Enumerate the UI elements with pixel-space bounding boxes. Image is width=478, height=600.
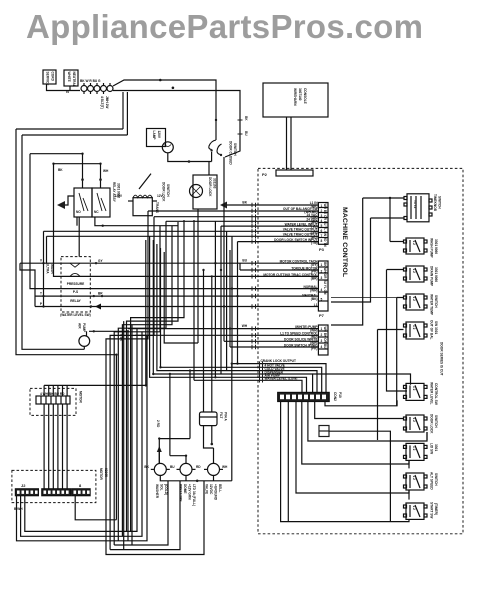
wire xyxy=(331,198,363,325)
wire rail3 xyxy=(30,154,61,289)
svg-text:DOOR SERIES IS CUT: DOOR SERIES IS CUT xyxy=(440,342,444,376)
wire xyxy=(126,92,128,135)
wire xyxy=(110,481,180,550)
svg-text:8: 8 xyxy=(79,483,82,488)
junction xyxy=(211,443,214,446)
wire xyxy=(62,404,64,489)
wire xyxy=(43,385,45,396)
junction xyxy=(189,369,191,371)
svg-text:8: 8 xyxy=(321,239,323,243)
relay K1 xyxy=(74,188,92,217)
junction xyxy=(93,330,95,332)
wire xyxy=(122,226,172,537)
svg-text:(PK): (PK) xyxy=(311,347,318,351)
wire xyxy=(397,297,404,299)
pin ticks group1 xyxy=(252,203,256,244)
svg-text:(PK): (PK) xyxy=(311,270,318,274)
svg-text:(GN): (GN) xyxy=(311,230,318,234)
junction xyxy=(99,178,102,181)
switch S9 xyxy=(404,473,428,490)
wire xyxy=(52,404,54,489)
wire xyxy=(213,475,215,480)
svg-text:BK: BK xyxy=(242,201,247,205)
motor terminal strip J2c xyxy=(72,489,90,496)
wire xyxy=(396,400,398,405)
valve solenoid V2 xyxy=(180,463,192,475)
wire xyxy=(16,128,123,130)
wire xyxy=(83,346,85,349)
pressure switch box xyxy=(61,257,90,312)
wire xyxy=(106,211,204,555)
svg-text:J2: J2 xyxy=(21,483,26,488)
wire xyxy=(61,275,318,277)
relay K2 xyxy=(92,188,110,217)
switch S6 xyxy=(404,383,428,400)
motor connector box xyxy=(30,388,76,415)
wire xyxy=(131,325,133,545)
svg-text:(OR): (OR) xyxy=(311,215,318,219)
wire xyxy=(189,371,191,439)
wire xyxy=(75,496,116,520)
svg-text:BK W R BU G: BK W R BU G xyxy=(80,79,101,83)
wire xyxy=(114,226,160,545)
wire xyxy=(325,400,397,405)
svg-text:5: 5 xyxy=(321,224,323,228)
wire xyxy=(69,86,71,91)
svg-text:1 2: 1 2 xyxy=(412,476,416,481)
wire xyxy=(214,221,216,377)
wire xyxy=(131,220,184,531)
svg-text:SOL: SOL xyxy=(160,484,164,491)
wire xyxy=(123,321,125,549)
svg-text:DOOR LOCK: DOOR LOCK xyxy=(162,182,166,202)
svg-text:WASH: WASH xyxy=(50,264,54,274)
svg-text:P10: P10 xyxy=(338,392,342,398)
svg-text:SWITCH: SWITCH xyxy=(434,473,438,486)
svg-text:NC: NC xyxy=(94,210,99,214)
svg-text:(COLD): (COLD) xyxy=(164,484,168,495)
svg-text:BK: BK xyxy=(144,465,149,469)
svg-text:4: 4 xyxy=(321,345,323,349)
svg-text:GY: GY xyxy=(98,259,103,263)
secondary label rows group1 xyxy=(304,204,317,350)
svg-text:PRESSURE: PRESSURE xyxy=(67,282,85,286)
svg-text:ULTRA: ULTRA xyxy=(46,263,50,274)
svg-text:4: 4 xyxy=(321,288,323,292)
wire relay2 bottom xyxy=(95,217,178,226)
switch S7 xyxy=(404,415,428,432)
svg-text:1 2: 1 2 xyxy=(412,446,416,451)
wire xyxy=(76,217,78,226)
wire xyxy=(378,329,404,331)
wire xyxy=(231,236,233,367)
svg-text:P2: P2 xyxy=(262,172,268,177)
svg-text:(GY): (GY) xyxy=(311,263,318,267)
svg-text:+GROUND: +GROUND xyxy=(214,484,218,501)
svg-text:(BK): (BK) xyxy=(311,204,318,208)
wire xyxy=(260,377,307,392)
svg-text:TRANS: TRANS xyxy=(155,202,159,213)
svg-text:1: 1 xyxy=(321,263,323,267)
wire xyxy=(43,231,45,306)
svg-text:BU: BU xyxy=(242,259,247,263)
transformer T1 xyxy=(128,195,157,216)
pin ticks group2 xyxy=(252,261,256,309)
wire xyxy=(231,364,233,481)
door lock box xyxy=(193,175,217,209)
svg-text:LTD 3A (FULL): LTD 3A (FULL) xyxy=(192,484,196,506)
svg-text:4 WH BK BU RD: 4 WH BK BU RD xyxy=(40,392,65,396)
arrow on L1 wire xyxy=(95,304,101,310)
svg-text:1 2: 1 2 xyxy=(412,241,416,246)
svg-text:DOOR LOCK: DOOR LOCK xyxy=(208,177,212,197)
svg-text:AIR: AIR xyxy=(78,323,82,329)
svg-text:(TIMER): (TIMER) xyxy=(434,503,438,515)
junction xyxy=(196,480,199,483)
wire xyxy=(296,402,409,494)
switch S5 xyxy=(404,322,428,339)
svg-text:12VDC: 12VDC xyxy=(209,484,213,495)
wire xyxy=(260,367,322,392)
svg-text:(WH): (WH) xyxy=(310,288,317,292)
svg-text:(BR): (BR) xyxy=(311,276,318,280)
wire xyxy=(169,448,171,456)
harness stem xyxy=(286,117,288,170)
svg-text:NO: NO xyxy=(76,210,81,214)
wire xyxy=(20,262,318,264)
svg-text:(YL): (YL) xyxy=(311,225,317,229)
tick marks wire B xyxy=(238,119,243,121)
switch S10 xyxy=(404,503,428,519)
svg-text:V: V xyxy=(40,259,43,263)
svg-text:(TN): (TN) xyxy=(311,241,317,245)
wire xyxy=(159,439,190,464)
pin ticks crank group xyxy=(260,361,263,382)
svg-text:T: T xyxy=(40,292,42,296)
wire xyxy=(240,269,318,271)
wire xyxy=(197,217,199,343)
svg-text:3: 3 xyxy=(321,276,323,280)
svg-text:3301 9066: 3301 9066 xyxy=(434,267,438,282)
svg-text:(BK): (BK) xyxy=(311,297,318,301)
svg-text:BU: BU xyxy=(244,131,248,136)
plug box L1 xyxy=(43,70,56,84)
wire xyxy=(25,328,137,531)
junction xyxy=(214,376,216,378)
wire xyxy=(47,235,319,237)
wire motor connector feed xyxy=(44,240,146,385)
svg-text:DOME: DOME xyxy=(183,484,187,494)
svg-text:CRANK LOCK OUTPUT: CRANK LOCK OUTPUT xyxy=(261,359,296,363)
wire xyxy=(20,263,35,306)
svg-text:1 2: 1 2 xyxy=(412,418,416,423)
wire xyxy=(35,306,318,308)
svg-text:3407140: 3407140 xyxy=(298,88,302,101)
wire xyxy=(153,240,260,374)
svg-text:DOOR LOCK: DOOR LOCK xyxy=(430,414,434,434)
contact xyxy=(70,273,80,276)
terminal block TB1 xyxy=(81,83,113,94)
wire xyxy=(193,220,195,380)
wire xyxy=(86,331,88,336)
svg-text:1: 1 xyxy=(321,204,323,208)
wire xyxy=(230,346,318,348)
wire xyxy=(387,270,408,392)
wire xyxy=(204,426,214,448)
svg-text:(WH): (WH) xyxy=(310,341,317,345)
svg-text:P04 A: P04 A xyxy=(224,412,228,421)
arrow to door lock xyxy=(220,202,227,209)
wire xyxy=(157,244,260,371)
junction xyxy=(211,275,213,277)
svg-text:P-S: P-S xyxy=(73,290,78,294)
wire S6 top feed xyxy=(313,374,411,385)
svg-text:CORD: CORD xyxy=(51,72,55,82)
wire xyxy=(82,154,84,188)
wire xyxy=(161,248,261,367)
svg-text:(RD): (RD) xyxy=(311,335,318,339)
wire xyxy=(54,164,62,277)
svg-text:(BU): (BU) xyxy=(311,220,318,224)
door closed switch S1 xyxy=(209,140,222,162)
wire xyxy=(194,380,302,392)
lamp DL1 xyxy=(162,142,173,153)
svg-text:SW 3301: SW 3301 xyxy=(434,321,438,334)
switch S2 xyxy=(404,238,428,254)
svg-text:5: 5 xyxy=(321,298,323,302)
wire rail1 xyxy=(16,129,116,520)
svg-text:LID SW: LID SW xyxy=(430,443,434,454)
svg-text:SWITCH: SWITCH xyxy=(233,143,237,156)
wire xyxy=(158,448,160,463)
svg-text:(WH): (WH) xyxy=(310,328,317,332)
wire xyxy=(224,340,318,342)
wire xyxy=(128,328,318,330)
wire xyxy=(238,241,319,243)
valve solenoid V1 xyxy=(154,463,166,475)
svg-text:3301 9066: 3301 9066 xyxy=(434,239,438,254)
svg-text:WATER TEMP: WATER TEMP xyxy=(430,294,434,316)
svg-text:WH BK OR BU YL GN RD TN: WH BK OR BU YL GN RD TN xyxy=(323,204,327,248)
svg-text:2: 2 xyxy=(321,270,323,274)
wire xyxy=(260,371,317,393)
svg-text:(RD): (RD) xyxy=(311,235,318,239)
lamp box xyxy=(147,129,166,147)
wire xyxy=(169,374,171,448)
wire xyxy=(89,331,128,541)
svg-text:CON2: CON2 xyxy=(333,392,337,401)
wire xyxy=(30,153,83,155)
switch S3 xyxy=(404,266,428,282)
wire xyxy=(118,221,166,541)
svg-text:WH BK OR BU: WH BK OR BU xyxy=(323,327,327,350)
wire B to door switch right xyxy=(113,91,240,158)
wire xyxy=(302,402,409,465)
wire xyxy=(232,364,326,393)
motor terminal strip J2a xyxy=(15,489,38,496)
wire xyxy=(203,270,205,412)
svg-text:331163: 331163 xyxy=(213,178,217,189)
svg-text:3301: 3301 xyxy=(434,444,438,451)
wire xyxy=(46,236,48,263)
door lock motor xyxy=(190,185,203,198)
filter capacitor C1 xyxy=(200,412,218,426)
svg-text:3: 3 xyxy=(321,214,323,218)
labels group3 xyxy=(280,325,318,347)
svg-text:PUMP: PUMP xyxy=(82,323,86,333)
wire xyxy=(237,242,239,364)
wire xyxy=(44,230,319,232)
wire xyxy=(226,231,228,370)
wire xyxy=(66,404,68,489)
motor enclosure xyxy=(12,470,96,502)
wire xyxy=(287,402,289,522)
wire xyxy=(47,84,81,91)
wire xyxy=(48,404,50,489)
svg-text:(WH-BK): (WH-BK) xyxy=(304,210,317,214)
svg-text:RELAY ASSY: RELAY ASSY xyxy=(112,182,116,203)
svg-text:L1: L1 xyxy=(314,303,318,307)
wire xyxy=(211,426,213,444)
valve solenoid V3 xyxy=(208,463,220,475)
wire xyxy=(168,153,212,162)
svg-text:6 BK: 6 BK xyxy=(119,334,123,342)
svg-text:2: 2 xyxy=(321,209,323,213)
svg-text:RELAY: RELAY xyxy=(70,299,81,303)
wire xyxy=(197,209,199,217)
timer U1 xyxy=(404,194,432,222)
switch internal marks xyxy=(412,200,417,510)
wire rail2 xyxy=(22,135,84,349)
junction dots xyxy=(52,79,238,457)
wire harness box xyxy=(263,83,328,117)
svg-text:START SW: START SW xyxy=(430,502,434,518)
svg-text:RD: RD xyxy=(196,465,201,469)
wire xyxy=(170,456,186,464)
junction xyxy=(188,160,191,163)
labels group2 xyxy=(263,260,318,307)
wire xyxy=(408,490,410,500)
wire xyxy=(114,481,168,545)
svg-text:12V: 12V xyxy=(157,194,164,198)
wire solenoid bottoms xyxy=(160,475,232,480)
svg-text:1: 1 xyxy=(321,327,323,331)
wire xyxy=(110,217,154,550)
connector P8 xyxy=(319,426,329,437)
svg-text:ALT SPEED: ALT SPEED xyxy=(430,472,434,490)
wire xyxy=(223,157,225,341)
svg-text:62305: 62305 xyxy=(104,468,108,477)
svg-text:1 2: 1 2 xyxy=(412,386,416,391)
pin ticks group3 xyxy=(252,326,256,349)
wire xyxy=(127,222,179,531)
svg-text:1 2: 1 2 xyxy=(412,297,416,302)
svg-text:3: 3 xyxy=(321,339,323,343)
machine control enclosure xyxy=(258,168,463,533)
junction xyxy=(202,269,204,271)
svg-text:2: 2 xyxy=(321,333,323,337)
svg-text:WATER LEVEL: WATER LEVEL xyxy=(430,382,434,404)
svg-text:WH: WH xyxy=(103,169,109,173)
wire xyxy=(213,448,215,463)
junction xyxy=(231,362,233,364)
junction xyxy=(389,197,391,199)
svg-text:WASHER: WASHER xyxy=(155,484,159,499)
wire xyxy=(377,330,379,441)
svg-text:PRESSURE: PRESSURE xyxy=(179,484,183,502)
svg-text:1 2: 1 2 xyxy=(412,269,416,274)
svg-text:WH: WH xyxy=(222,465,228,469)
svg-text:120V: 120V xyxy=(157,131,161,139)
svg-text:FILT: FILT xyxy=(219,412,223,419)
wire xyxy=(396,298,398,406)
wire xyxy=(331,218,371,302)
svg-text:120V: 120V xyxy=(115,194,123,198)
svg-text:P: P xyxy=(40,302,43,306)
wire xyxy=(185,475,187,480)
svg-text:DOOR CLOSED: DOOR CLOSED xyxy=(229,141,233,165)
wire xyxy=(139,174,151,189)
svg-text:SERVICE: SERVICE xyxy=(46,72,50,86)
wire xyxy=(17,335,148,540)
wire xyxy=(150,236,260,377)
switch S8 xyxy=(404,443,428,460)
wire xyxy=(239,263,241,270)
svg-text:MACHINE CONTROL: MACHINE CONTROL xyxy=(341,207,348,277)
svg-text:BK: BK xyxy=(244,116,248,121)
svg-text:SWITCH: SWITCH xyxy=(434,415,438,428)
svg-text:JMH 2W: JMH 2W xyxy=(105,96,109,108)
wire xyxy=(390,241,404,243)
wire xyxy=(211,276,213,412)
wire xyxy=(389,198,391,242)
svg-text:SWITCH: SWITCH xyxy=(434,295,438,308)
wire xyxy=(408,460,410,468)
wire xyxy=(61,288,318,290)
wire xyxy=(148,210,318,212)
contact xyxy=(70,263,80,267)
wire xyxy=(371,217,405,219)
wire xyxy=(329,431,390,521)
svg-text:WASH PUMP: WASH PUMP xyxy=(430,238,434,259)
wire xyxy=(221,225,318,227)
junction xyxy=(81,178,84,181)
wire xyxy=(208,162,210,176)
svg-text:N: N xyxy=(66,89,69,94)
wire pair C to lamp xyxy=(122,92,124,129)
svg-text:4: 4 xyxy=(321,219,323,223)
harness base bar xyxy=(276,170,313,176)
junctions on pressure lines xyxy=(42,262,44,264)
wire xyxy=(57,404,59,489)
wire xyxy=(35,295,318,297)
wire xyxy=(281,402,409,522)
wire xyxy=(308,402,427,442)
svg-text:2 RD: 2 RD xyxy=(156,420,160,428)
wire xyxy=(227,204,318,206)
wire xyxy=(22,134,127,136)
air pump M2 xyxy=(79,336,90,347)
junction xyxy=(236,362,238,364)
wire A to door switch xyxy=(113,80,216,140)
svg-text:T1 T2: T1 T2 xyxy=(413,200,417,209)
svg-text:TIMEKNOB: TIMEKNOB xyxy=(433,194,437,212)
svg-text:SWITCH: SWITCH xyxy=(438,196,442,209)
wire xyxy=(65,196,74,205)
wire xyxy=(363,197,404,199)
labels group1 xyxy=(274,201,318,242)
svg-text:WIREHARN: WIREHARN xyxy=(293,88,297,106)
